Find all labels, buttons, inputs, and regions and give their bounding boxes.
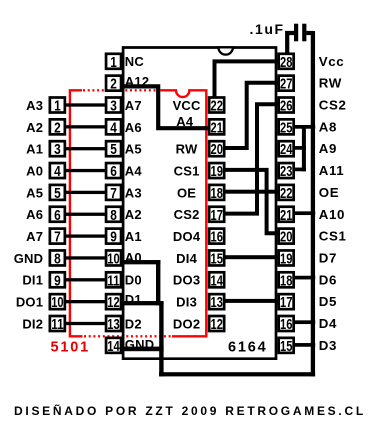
- 6164 pin 2: [106, 76, 121, 91]
- IC 5101 outline left edge and solid corners (red): [70, 90, 83, 336]
- wire GND: 6164-14 to GND drop: [121, 347, 164, 352]
- 5101 pin 14: [209, 272, 224, 287]
- svg-text:A1: A1: [26, 142, 43, 157]
- svg-text:CS1: CS1: [174, 164, 200, 179]
- 6164 pin 14: [106, 338, 121, 353]
- 6164 pin 22: [279, 185, 294, 200]
- 5101 pin 4: [50, 163, 65, 178]
- wire A10 stub to GND rail: [295, 211, 315, 215]
- 6164 pin 19: [279, 250, 294, 265]
- wire GND rail vertical (right side): [311, 31, 315, 376]
- svg-text:DI4: DI4: [176, 251, 197, 266]
- svg-text:D0: D0: [125, 273, 142, 288]
- 6164 pin 12: [106, 294, 121, 309]
- svg-text:6: 6: [54, 207, 61, 224]
- 5101 pin 22: [209, 98, 224, 113]
- wire 5101-11 to 6164-13: [66, 322, 107, 325]
- 5101 pin 9: [50, 272, 65, 287]
- 5101 pin 5: [50, 185, 65, 200]
- svg-text:RW: RW: [319, 76, 342, 91]
- svg-text:3: 3: [110, 98, 117, 115]
- 5101 pin 19: [209, 163, 224, 178]
- svg-text:2: 2: [110, 76, 117, 93]
- svg-text:.1uF: .1uF: [250, 21, 285, 37]
- 5101 pin 18: [209, 185, 224, 200]
- wire A11 stub: [295, 168, 306, 172]
- svg-text:DO2: DO2: [173, 316, 200, 331]
- svg-text:DISEÑADO POR ZZT 2009 RETROGAM: DISEÑADO POR ZZT 2009 RETROGAMES.CL: [14, 403, 366, 418]
- wire GND bottom rail: [159, 372, 315, 376]
- svg-text:10: 10: [107, 250, 119, 267]
- svg-text:GND: GND: [125, 337, 155, 352]
- 5101 pin 16: [209, 229, 224, 244]
- svg-text:20: 20: [280, 229, 292, 246]
- svg-text:23: 23: [280, 163, 292, 180]
- svg-text:VCC: VCC: [173, 98, 201, 113]
- svg-text:14: 14: [107, 338, 120, 355]
- 5101 pin 6: [50, 207, 65, 222]
- wire 5101-5 to 6164-7: [66, 191, 107, 194]
- wire CS1: 5101-19 to 6164-20: [225, 170, 278, 233]
- svg-text:Vcc: Vcc: [319, 54, 344, 69]
- svg-text:12: 12: [211, 316, 223, 333]
- svg-text:A5: A5: [26, 185, 43, 200]
- wire D5: 5101-13 to 6164-17: [225, 299, 278, 303]
- wire 5101-6 to 6164-8: [66, 213, 107, 216]
- svg-text:13: 13: [107, 316, 119, 333]
- svg-text:25: 25: [280, 119, 292, 136]
- svg-text:OE: OE: [319, 185, 339, 200]
- svg-text:D4: D4: [319, 316, 337, 331]
- svg-text:A2: A2: [125, 207, 142, 222]
- capacitor C1 .1uF: [294, 24, 298, 42]
- 6164 pin 9: [106, 229, 121, 244]
- wire D3 stub to GND rail: [295, 343, 315, 347]
- svg-text:A12: A12: [125, 74, 149, 89]
- svg-text:2: 2: [54, 119, 61, 136]
- 6164 pin 4: [106, 119, 121, 134]
- wire 5101-1 to 6164-3: [66, 103, 107, 106]
- wire A12: 6164-2 to 5101-21: [122, 86, 209, 128]
- svg-text:8: 8: [110, 207, 117, 224]
- svg-text:A6: A6: [26, 207, 43, 222]
- wire 5101-10 to 6164-12: [66, 300, 107, 303]
- svg-text:A2: A2: [26, 120, 43, 135]
- svg-text:RW: RW: [176, 142, 198, 157]
- svg-text:D6: D6: [319, 272, 337, 287]
- 6164 pin 26: [279, 98, 294, 113]
- svg-text:15: 15: [211, 250, 223, 267]
- svg-text:21: 21: [280, 207, 292, 224]
- svg-text:18: 18: [211, 185, 223, 202]
- svg-text:DO4: DO4: [173, 229, 201, 244]
- svg-text:A7: A7: [26, 229, 43, 244]
- 6164 pin 27: [279, 76, 294, 91]
- svg-text:CS1: CS1: [319, 229, 347, 244]
- svg-text:A0: A0: [125, 250, 142, 265]
- 5101 pin 20: [209, 141, 224, 156]
- svg-text:A0: A0: [26, 164, 43, 179]
- svg-text:16: 16: [280, 316, 292, 333]
- svg-text:A9: A9: [319, 141, 337, 156]
- wire D1: 6164-12 to GND drop: [122, 301, 164, 305]
- svg-text:11: 11: [51, 316, 63, 333]
- 6164 pin 21: [279, 207, 294, 222]
- wire A8 stub to GND rail: [295, 125, 315, 129]
- 5101 pin 15: [209, 250, 224, 265]
- 6164 pin 7: [106, 185, 121, 200]
- wire D6 stub to GND rail: [295, 276, 315, 280]
- svg-text:6164: 6164: [228, 340, 267, 356]
- 6164 pin 15: [279, 338, 294, 353]
- 6164 pin 1: [106, 54, 121, 69]
- svg-text:A4: A4: [176, 114, 194, 129]
- 6164 pin 13: [106, 316, 121, 331]
- svg-text:D7: D7: [319, 250, 337, 265]
- wire 5101-9 to 6164-11: [66, 278, 107, 281]
- svg-text:22: 22: [211, 98, 223, 115]
- svg-text:NC: NC: [125, 54, 145, 69]
- svg-text:13: 13: [211, 294, 223, 311]
- wire D7: 5101-15 to 6164-19: [225, 255, 278, 259]
- svg-text:D3: D3: [319, 338, 337, 353]
- 5101 pin 21: [209, 119, 224, 134]
- IC 5101 outline right edge with pin-1 notch (red): [160, 90, 206, 336]
- svg-text:16: 16: [211, 229, 223, 246]
- svg-text:17: 17: [280, 294, 292, 311]
- IC 5101 outline top edge (dotted, hidden part): [83, 89, 157, 91]
- svg-text:20: 20: [211, 141, 223, 158]
- svg-text:D1: D1: [125, 292, 142, 307]
- 5101 pin 2: [50, 119, 65, 134]
- svg-text:DI2: DI2: [22, 316, 43, 331]
- 6164 pin 5: [106, 141, 121, 156]
- svg-text:1: 1: [54, 98, 61, 115]
- svg-text:5: 5: [54, 185, 61, 202]
- svg-text:DO3: DO3: [173, 273, 200, 288]
- wire 5101-2 to 6164-4: [66, 125, 107, 128]
- svg-text:A11: A11: [319, 163, 344, 178]
- 6164 pin 11: [106, 272, 121, 287]
- IC 6164 pin-1 notch: [218, 47, 233, 54]
- svg-text:DI1: DI1: [22, 273, 43, 288]
- 6164 pin 17: [279, 294, 294, 309]
- wire Vcc: 5101-22 up to 6164-28: [215, 61, 279, 96]
- svg-text:9: 9: [110, 229, 117, 246]
- svg-text:5101: 5101: [51, 339, 90, 355]
- svg-text:1: 1: [110, 54, 117, 71]
- svg-text:A1: A1: [125, 229, 142, 244]
- wire GND drop vertical upper: [156, 260, 160, 305]
- svg-text:10: 10: [51, 294, 63, 311]
- svg-text:9: 9: [54, 272, 61, 289]
- svg-text:14: 14: [211, 272, 224, 289]
- wire 5101-4 to 6164-6: [66, 169, 107, 172]
- svg-text:18: 18: [280, 272, 292, 289]
- 5101 pin 12: [209, 316, 224, 331]
- svg-text:A3: A3: [26, 98, 43, 113]
- 6164 pin 3: [106, 98, 121, 113]
- 5101 pin 10: [50, 294, 65, 309]
- svg-text:24: 24: [280, 141, 293, 158]
- 6164 pin 28: [279, 54, 294, 69]
- 6164 pin 18: [279, 272, 294, 287]
- svg-text:CS2: CS2: [319, 98, 347, 113]
- 5101 pin 1: [50, 98, 65, 113]
- 6164 pin 8: [106, 207, 121, 222]
- svg-text:11: 11: [107, 272, 119, 289]
- svg-text:DO1: DO1: [16, 295, 43, 310]
- svg-text:7: 7: [110, 185, 117, 202]
- svg-text:17: 17: [211, 207, 223, 224]
- svg-text:D2: D2: [125, 316, 142, 331]
- wire junction vertical A8-A9-A11: [302, 125, 306, 171]
- svg-text:28: 28: [280, 54, 292, 71]
- svg-text:OE: OE: [177, 185, 196, 200]
- svg-text:6: 6: [110, 163, 117, 180]
- svg-text:5: 5: [110, 141, 117, 158]
- wire A9 stub: [295, 146, 306, 150]
- svg-text:GND: GND: [14, 251, 44, 266]
- svg-text:27: 27: [280, 76, 292, 93]
- svg-text:DI3: DI3: [176, 295, 197, 310]
- 5101 pin 13: [209, 294, 224, 309]
- wire 5101-8 to 6164-10: [66, 256, 107, 259]
- 5101 pin 17: [209, 207, 224, 222]
- 5101 pin 11: [50, 316, 65, 331]
- svg-text:21: 21: [211, 119, 223, 136]
- wire D4 stub to GND rail: [295, 320, 315, 324]
- wire GND drop vertical lower: [159, 301, 163, 376]
- svg-text:D5: D5: [319, 294, 337, 309]
- svg-text:A8: A8: [319, 119, 337, 134]
- svg-text:22: 22: [280, 185, 292, 202]
- 6164 pin 6: [106, 163, 121, 178]
- svg-text:A10: A10: [319, 207, 345, 222]
- svg-text:A6: A6: [125, 120, 142, 135]
- wire RW: 5101-20 to 6164-27: [225, 83, 278, 148]
- svg-text:CS2: CS2: [174, 207, 200, 222]
- wire CS2: 5101-17 to 6164-26: [225, 104, 278, 213]
- 5101 pin 7: [50, 229, 65, 244]
- IC 6164 body: [123, 48, 276, 359]
- 6164 pin 24: [279, 141, 294, 156]
- svg-text:8: 8: [54, 250, 61, 267]
- svg-text:A5: A5: [125, 142, 142, 157]
- svg-text:A7: A7: [125, 98, 142, 113]
- 5101 pin 8: [50, 250, 65, 265]
- 5101 pin 3: [50, 141, 65, 156]
- svg-text:15: 15: [280, 338, 292, 355]
- svg-text:4: 4: [110, 119, 117, 136]
- svg-text:19: 19: [280, 250, 292, 267]
- 6164 pin 25: [279, 119, 294, 134]
- 6164 pin 20: [279, 229, 294, 244]
- wire A0: 6164-10 to GND drop: [122, 260, 160, 264]
- wire 5101-3 to 6164-5: [66, 147, 107, 150]
- wire 5101-7 to 6164-9: [66, 234, 107, 237]
- svg-text:19: 19: [211, 163, 223, 180]
- svg-text:7: 7: [54, 229, 61, 246]
- 6164 pin 16: [279, 316, 294, 331]
- svg-text:A4: A4: [125, 164, 143, 179]
- svg-text:A3: A3: [125, 185, 142, 200]
- svg-text:12: 12: [107, 294, 119, 311]
- svg-text:3: 3: [54, 141, 61, 158]
- 6164 pin 10: [106, 250, 121, 265]
- wire OE: 5101-18 to 6164-22: [225, 190, 278, 194]
- svg-text:26: 26: [280, 98, 292, 115]
- svg-text:4: 4: [54, 163, 61, 180]
- 6164 pin 23: [279, 163, 294, 178]
- IC 5101 outline bottom edge (dotted, hidden part): [84, 335, 172, 337]
